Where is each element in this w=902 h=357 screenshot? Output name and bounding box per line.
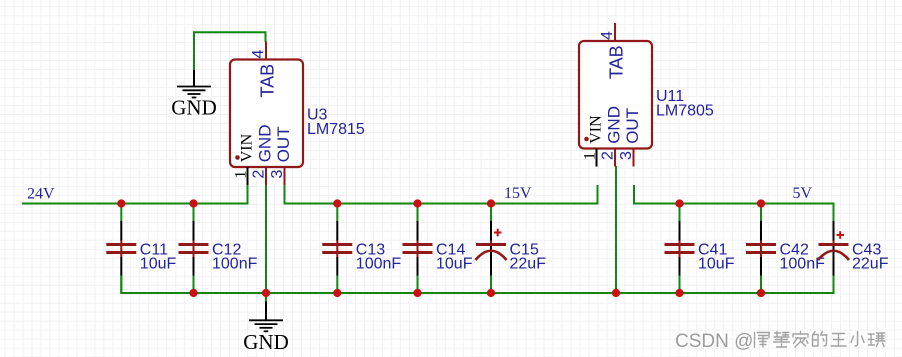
svg-text:2: 2: [251, 170, 268, 179]
svg-text:4: 4: [599, 31, 616, 40]
svg-text:22uF: 22uF: [510, 256, 547, 273]
U3 pin 3 OUT: [269, 126, 293, 185]
U11 pin 4 TAB: [599, 23, 626, 79]
U11 pin1 marker dot: [584, 137, 589, 142]
svg-text:5V: 5V: [793, 185, 813, 202]
capacitor C14: [403, 204, 433, 294]
svg-text:OUT: OUT: [274, 126, 293, 162]
svg-text:10uF: 10uF: [698, 256, 735, 273]
U3 pin 1 VIN: [233, 133, 256, 185]
wire U3 pin2 to ground rail: [265, 185, 267, 293]
svg-text:22uF: 22uF: [852, 256, 889, 273]
junction ground rail x=417.5: [413, 289, 421, 297]
svg-text:TAB: TAB: [606, 45, 626, 79]
capacitor C41: [665, 204, 695, 294]
junction ground rail x=337.3: [333, 289, 341, 297]
ground symbol top left: [177, 70, 211, 98]
svg-text:VIN: VIN: [588, 115, 605, 144]
junction ground rail x=193.5: [189, 289, 197, 297]
svg-text:GND: GND: [605, 106, 624, 144]
ground symbol bottom: [249, 302, 283, 332]
wire ground stub below U3 pin2 junction: [265, 293, 267, 302]
svg-text:GND: GND: [256, 125, 275, 163]
wire U11 pin2 to ground rail: [615, 166, 617, 293]
junction ground rail x=616.0: [612, 289, 620, 297]
svg-text:TAB: TAB: [257, 64, 277, 98]
junction top rail x=491.0: [487, 199, 495, 207]
capacitor C13: [322, 204, 352, 294]
wire 15V rail: [285, 185, 598, 204]
U3 pin 4 TAB: [250, 42, 277, 98]
capacitor C11: [106, 204, 136, 294]
svg-text:15V: 15V: [504, 185, 532, 202]
U11 pin 3 OUT: [618, 108, 642, 167]
junction top rail x=121.3: [117, 199, 125, 207]
svg-text:1: 1: [233, 171, 250, 179]
junction top rail x=679.5: [675, 199, 683, 207]
svg-text:3: 3: [269, 170, 286, 179]
svg-text:4: 4: [250, 50, 267, 59]
svg-text:100nF: 100nF: [356, 256, 402, 273]
wire 5V rail: [634, 185, 834, 221]
junction top rail x=337.3: [333, 199, 341, 207]
wire ground rail: [121, 276, 833, 294]
junction ground rail x=266.0: [262, 289, 270, 297]
svg-text:3: 3: [618, 151, 635, 160]
junction ground rail x=679.5: [675, 289, 683, 297]
wire 24V rail: [22, 185, 248, 204]
capacitor C12: [179, 204, 209, 294]
svg-text:10uF: 10uF: [436, 256, 473, 273]
svg-text:1: 1: [582, 152, 599, 160]
junction top rail x=193.5: [189, 199, 197, 207]
junction ground rail x=761.0: [757, 289, 765, 297]
svg-text:OUT: OUT: [623, 108, 642, 144]
svg-text:10uF: 10uF: [140, 256, 177, 273]
svg-text:GND: GND: [171, 96, 217, 120]
U3 pin 2 GND: [251, 125, 275, 185]
junction ground rail x=491.0: [487, 289, 495, 297]
svg-text:VIN: VIN: [239, 133, 256, 162]
junction top rail x=417.5: [413, 199, 421, 207]
wire U3 tab to ground: [194, 32, 266, 70]
U3 pin1 marker dot: [235, 155, 240, 160]
capacitor C15: [476, 204, 507, 294]
U11 pin 2 GND: [600, 106, 624, 166]
watermark CJK glyphs: [755, 332, 886, 348]
svg-text:2: 2: [600, 151, 617, 160]
regulator U3 body: [230, 60, 303, 168]
svg-text:100nF: 100nF: [212, 256, 258, 273]
svg-text:GND: GND: [243, 330, 289, 354]
capacitor C43: [818, 204, 849, 294]
U11 pin 1 VIN: [582, 115, 605, 167]
junction top rail x=761.0: [757, 199, 765, 207]
capacitor C42: [746, 204, 776, 294]
regulator U11 body: [579, 41, 652, 149]
svg-text:24V: 24V: [27, 186, 55, 203]
svg-text:LM7815: LM7815: [307, 121, 365, 138]
svg-text:CSDN @: CSDN @: [675, 331, 753, 352]
svg-text:LM7805: LM7805: [656, 102, 714, 119]
